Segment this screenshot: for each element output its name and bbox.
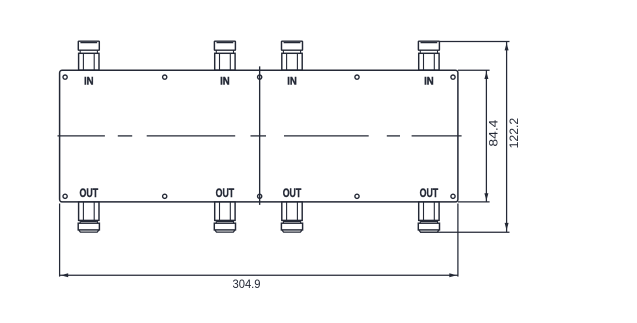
dimension 122.2: bottom extension line [420,231,510,233]
svg-text:84.4: 84.4 [486,119,500,146]
connector J8 OUT (bottom, N-type body) [418,202,439,232]
connector J5 OUT (bottom, N-type body) [78,202,99,232]
mounting hole bottom 4 [355,194,359,198]
svg-text:304.9: 304.9 [233,277,261,291]
svg-text:OUT: OUT [420,186,439,200]
mounting hole top 2 [163,75,167,79]
connector J2 IN (top, N-type body) [214,41,235,70]
mounting hole top 3 [258,75,262,79]
mounting hole bottom 5 [451,194,455,198]
mounting hole bottom 1 [63,194,67,198]
svg-text:IN: IN [287,76,297,88]
svg-text:IN: IN [84,76,94,88]
body outline: rectangular housing 304.9 x 84.4 [60,70,458,202]
mounting hole top 5 [451,75,455,79]
mounting hole top 4 [355,75,359,79]
dimension 122.2: bottom arrowhead [505,223,509,231]
dimension 304.9: left extension line [59,204,61,277]
mounting hole bottom 3 [258,194,262,198]
dimension 84.4: bottom arrowhead [484,193,488,201]
divider wire: vertical split line between the two cavities [259,66,261,205]
svg-text:OUT: OUT [216,186,235,200]
svg-text:OUT: OUT [80,186,99,200]
dimension 84.4: top extension line [458,69,490,71]
connector J4 IN (top, N-type body) [418,41,439,70]
svg-text:IN: IN [220,76,230,88]
dimension 122.2: top extension line [439,41,509,43]
svg-text:122.2: 122.2 [507,117,521,148]
dimension 84.4: dimension line [485,70,487,202]
mounting hole top 1 [63,75,67,79]
svg-text:OUT: OUT [283,186,302,200]
connector J3 IN (top, N-type body) [282,41,303,70]
connector J6 OUT (bottom, N-type body) [214,202,235,232]
dimension 304.9: left arrowhead [61,273,68,277]
dimension 84.4: bottom extension line [458,201,490,203]
dimension 122.2: dimension line [506,42,508,233]
dimension 84.4: top arrowhead [484,72,488,80]
connector J1 IN (top, N-type body) [78,41,99,70]
dimension 304.9: right extension line [457,204,459,277]
connector J7 OUT (bottom, N-type body) [281,202,302,232]
centerline (dashed horizontal axis) [58,135,462,137]
svg-text:IN: IN [424,76,434,88]
dimension 304.9: dimension line [60,274,458,276]
dimension 122.2: top arrowhead [505,43,509,51]
dimension 304.9: right arrowhead [449,273,457,277]
mounting hole bottom 2 [163,194,167,198]
